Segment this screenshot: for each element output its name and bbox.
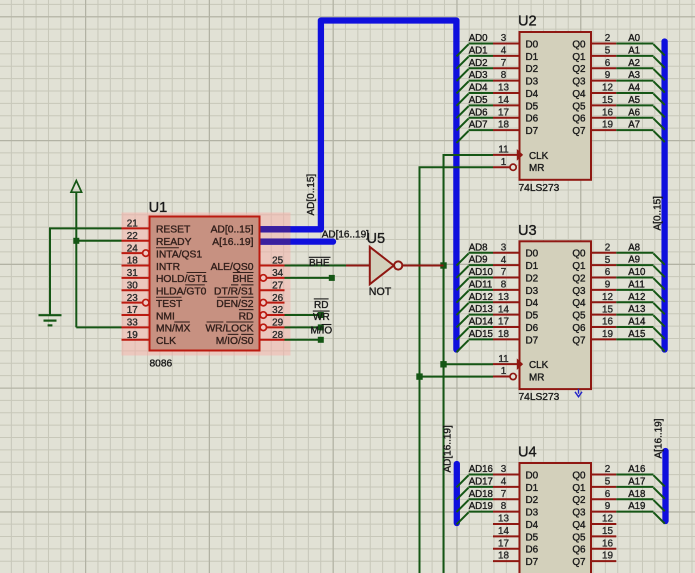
svg-text:AD4: AD4 [469, 83, 488, 94]
U4 pin 17 D6 [493, 548, 520, 550]
svg-text:A12: A12 [628, 292, 645, 303]
U1 pin 31 HOLD/GT1 [122, 277, 150, 279]
svg-text:Q4: Q4 [572, 520, 586, 531]
U1 pin 18 INTR [122, 265, 150, 267]
svg-text:D6: D6 [526, 323, 539, 334]
selection highlight box around U1 [122, 213, 291, 356]
U1 pin 19 CLK [122, 339, 150, 341]
wire U4 Q2 to A18 [616, 498, 653, 500]
svg-text:6: 6 [605, 267, 611, 278]
svg-text:RD: RD [239, 311, 254, 322]
bus entry AD7 [457, 131, 469, 143]
inverter U5 NOT gate [346, 265, 370, 267]
U4 pin 15 Q5 [591, 535, 616, 537]
svg-text:A[16..19]: A[16..19] [212, 237, 253, 248]
U3 pin 16 Q6 [591, 326, 616, 328]
svg-text:D1: D1 [526, 52, 539, 63]
U2 pin 11 CLK [493, 154, 520, 156]
svg-text:14: 14 [498, 304, 509, 315]
bus entry AD11 [457, 291, 469, 303]
svg-text:7: 7 [501, 267, 507, 278]
U3 pin 14 D5 [493, 314, 520, 316]
svg-text:9: 9 [605, 70, 611, 81]
wire U2 Q0 to A0 [616, 43, 653, 45]
svg-text:3: 3 [501, 464, 507, 475]
svg-text:4: 4 [501, 476, 507, 487]
U4 pin 3 D0 [493, 474, 520, 476]
svg-text:1: 1 [501, 157, 507, 168]
U3 pin 6 Q2 [591, 277, 616, 279]
svg-text:D1: D1 [526, 483, 539, 494]
wire U4 Q0 to A16 [616, 474, 653, 476]
IC U1 8086 body [150, 217, 260, 351]
svg-text:D6: D6 [526, 545, 539, 556]
hidden power pin indicator below U3 [575, 389, 582, 397]
U4 pin 12 Q4 [591, 523, 616, 525]
svg-text:19: 19 [602, 329, 613, 340]
svg-text:D2: D2 [526, 273, 539, 284]
bus entry AD3 [457, 81, 469, 93]
svg-text:Q2: Q2 [572, 495, 585, 506]
U1 pin 22 READY [122, 240, 150, 242]
svg-text:A19: A19 [628, 501, 645, 512]
svg-text:CLK: CLK [529, 360, 549, 371]
svg-text:33: 33 [127, 318, 138, 329]
svg-text:27: 27 [272, 280, 283, 291]
svg-text:22: 22 [127, 231, 138, 242]
svg-text:29: 29 [272, 318, 283, 329]
svg-text:D3: D3 [526, 286, 539, 297]
svg-text:7: 7 [501, 58, 507, 69]
svg-text:1: 1 [501, 366, 507, 377]
wire AD2 to U2 D2 [469, 67, 494, 69]
U1 pin 24 INTA/QS1 [122, 252, 143, 254]
svg-text:30: 30 [127, 280, 138, 291]
wire AD5 to U2 D5 [469, 104, 494, 106]
bus A[16..19] vertical right of U4 [662, 451, 668, 521]
svg-text:TEST: TEST [156, 299, 183, 310]
svg-text:A4: A4 [628, 83, 640, 94]
U3 pin 12 Q4 [591, 301, 616, 303]
svg-text:A15: A15 [628, 329, 645, 340]
svg-text:AD18: AD18 [469, 489, 493, 500]
bus AD[16..19] vertical left of U4 [454, 464, 460, 523]
bus A[16..19] stub from U1 [258, 238, 333, 244]
svg-text:BHE: BHE [232, 274, 253, 285]
svg-text:AD12: AD12 [469, 292, 493, 303]
bus entry A10 [654, 278, 665, 289]
svg-text:4: 4 [501, 45, 507, 56]
bus entry A12 [654, 303, 665, 314]
U4 pin 7 D2 [493, 498, 520, 500]
wire U4 Q1 to A17 [616, 486, 653, 488]
svg-text:13: 13 [498, 514, 509, 525]
svg-text:8: 8 [501, 501, 507, 512]
wire RD from U1 pin 32 [285, 314, 321, 316]
U2 pin 9 Q3 [591, 80, 616, 82]
wire U4 Q3 to A19 [616, 511, 653, 513]
svg-text:23: 23 [127, 293, 138, 304]
U1 pin 32 RD [260, 312, 266, 318]
U1 pin 29 WR/LOCK [260, 324, 266, 330]
svg-text:Q3: Q3 [572, 508, 586, 519]
U3 pin 19 Q7 [591, 338, 616, 340]
bus entry AD10 [457, 278, 469, 290]
svg-text:Q6: Q6 [572, 323, 586, 334]
wire U2 Q6 to A6 [616, 117, 653, 119]
svg-text:18: 18 [498, 120, 509, 131]
svg-text:AD8: AD8 [469, 242, 488, 253]
bus entry AD19 [457, 512, 469, 524]
svg-text:8: 8 [501, 280, 507, 291]
svg-text:D5: D5 [526, 101, 539, 112]
svg-text:A5: A5 [628, 95, 640, 106]
svg-text:D4: D4 [526, 89, 539, 100]
wire BHE from U1 pin 34 [285, 277, 332, 279]
svg-text:13: 13 [498, 83, 509, 94]
svg-text:A3: A3 [628, 70, 640, 81]
U1 pin 26 DEN/S2 [260, 299, 266, 305]
svg-text:AD13: AD13 [469, 304, 493, 315]
svg-text:74LS273: 74LS273 [519, 183, 560, 194]
svg-text:16: 16 [602, 538, 613, 549]
svg-text:Q4: Q4 [572, 298, 586, 309]
svg-text:D6: D6 [526, 114, 539, 125]
wire AD3 to U2 D3 [469, 80, 494, 82]
U1 pin 34 BHE [260, 275, 266, 281]
svg-text:Q3: Q3 [572, 286, 586, 297]
svg-text:ALE/QS0: ALE/QS0 [211, 262, 254, 273]
U2 pin 2 Q0 [591, 43, 616, 45]
svg-text:5: 5 [605, 476, 611, 487]
bus entry AD12 [457, 303, 469, 315]
U4 pin 6 Q2 [591, 498, 616, 500]
svg-text:6: 6 [605, 489, 611, 500]
wire AD17 to U4 D1 [469, 486, 494, 488]
svg-text:D0: D0 [526, 39, 539, 50]
wire ALE/QS0 from U1 pin 25 to U5 input [285, 265, 347, 267]
svg-text:A9: A9 [628, 255, 640, 266]
U2 pin 19 Q7 [591, 129, 616, 131]
svg-text:U2: U2 [518, 14, 537, 30]
svg-text:AD1: AD1 [469, 45, 488, 56]
wire U2 Q1 to A1 [616, 55, 653, 57]
wire AD14 to U3 D6 [469, 326, 494, 328]
wire MN/MX to U1 pin 33 [76, 326, 121, 328]
wire AD16 to U4 D0 [469, 474, 494, 476]
svg-text:Q5: Q5 [572, 311, 586, 322]
svg-text:Q7: Q7 [572, 335, 585, 346]
bus entry A4 [654, 94, 665, 105]
bus entry A8 [654, 254, 665, 265]
svg-text:25: 25 [272, 256, 283, 267]
bus entry AD6 [457, 119, 469, 131]
bus entry AD4 [457, 94, 469, 106]
svg-text:Q1: Q1 [572, 261, 586, 272]
svg-text:AD10: AD10 [469, 267, 494, 278]
svg-text:12: 12 [602, 292, 613, 303]
svg-text:NOT: NOT [369, 286, 392, 298]
svg-text:Q1: Q1 [572, 52, 586, 63]
bus entry A11 [654, 291, 665, 302]
svg-text:M/IO/S0: M/IO/S0 [216, 336, 254, 347]
svg-text:A13: A13 [628, 304, 645, 315]
svg-text:14: 14 [498, 95, 509, 106]
svg-text:D7: D7 [526, 335, 539, 346]
svg-text:2: 2 [605, 33, 611, 44]
wire U3 Q4 to A12 [616, 301, 653, 303]
svg-text:12: 12 [602, 83, 613, 94]
svg-text:D2: D2 [526, 495, 539, 506]
U1 pin 33 MN/MX [122, 326, 150, 328]
svg-text:D3: D3 [526, 508, 539, 519]
wire VCC vertical down to MN/MX row [75, 192, 77, 327]
svg-text:INTA/QS1: INTA/QS1 [156, 249, 202, 260]
svg-text:A[0..15]: A[0..15] [652, 196, 663, 231]
bus entry A3 [654, 81, 665, 92]
svg-text:INTR: INTR [156, 262, 180, 273]
svg-text:D4: D4 [526, 298, 539, 309]
svg-text:A0: A0 [628, 33, 640, 44]
wire AD10 to U3 D2 [469, 277, 494, 279]
svg-text:12: 12 [602, 514, 613, 525]
svg-text:8: 8 [501, 70, 507, 81]
svg-text:5: 5 [605, 255, 611, 266]
wire AD1 to U2 D1 [469, 55, 494, 57]
bus entry AD2 [457, 69, 469, 81]
U2 pin 12 Q4 [591, 92, 616, 94]
bus entry A0 [654, 44, 665, 55]
wire AD8 to U3 D0 [469, 252, 494, 254]
svg-text:CLK: CLK [156, 336, 176, 347]
bus entry A15 [654, 340, 665, 351]
svg-text:31: 31 [127, 268, 138, 279]
wire WR from U1 pin 29 [285, 326, 321, 328]
U1 pin 28 M/IO/S0 [260, 339, 285, 341]
svg-text:24: 24 [127, 243, 138, 254]
svg-text:28: 28 [272, 330, 283, 341]
svg-text:MN/MX: MN/MX [156, 324, 190, 335]
bus entry A13 [654, 315, 665, 326]
svg-text:Q6: Q6 [572, 114, 586, 125]
svg-text:D2: D2 [526, 64, 539, 75]
wire AD7 to U2 D7 [469, 129, 494, 131]
svg-text:AD[16..19]: AD[16..19] [322, 229, 369, 240]
U1 pin 17 NMI [122, 314, 150, 316]
wire CLK branch to U3 pin 11 [444, 363, 494, 365]
bus entry AD1 [457, 57, 469, 69]
wire U3 Q6 to A14 [616, 326, 653, 328]
wire M/IO from U1 pin 28 [285, 339, 321, 341]
wire AD13 to U3 D5 [469, 314, 494, 316]
bus entry AD8 [457, 254, 469, 266]
svg-text:11: 11 [498, 144, 509, 155]
bus entry A2 [654, 69, 665, 80]
svg-text:18: 18 [127, 256, 138, 267]
svg-text:26: 26 [272, 293, 283, 304]
svg-text:32: 32 [272, 305, 283, 316]
svg-text:AD[0..15]: AD[0..15] [211, 225, 254, 236]
svg-text:34: 34 [272, 268, 283, 279]
svg-text:AD15: AD15 [469, 329, 493, 340]
U4 pin 13 D4 [493, 523, 520, 525]
U1 pin 23 TEST [122, 302, 143, 304]
U4 pin 19 Q7 [591, 560, 616, 562]
svg-text:Q6: Q6 [572, 545, 586, 556]
wire AD18 to U4 D2 [469, 498, 494, 500]
svg-text:A7: A7 [628, 120, 640, 131]
svg-text:AD5: AD5 [469, 95, 488, 106]
wire AD9 to U3 D1 [469, 264, 494, 266]
svg-text:MR: MR [529, 163, 544, 174]
svg-text:A6: A6 [628, 107, 640, 118]
wire U2 Q7 to A7 [616, 129, 653, 131]
junction CLK net at NOT output [440, 262, 446, 268]
svg-text:D7: D7 [526, 126, 539, 137]
ground symbol [39, 314, 62, 316]
svg-text:Q1: Q1 [572, 483, 586, 494]
wire AD19 to U4 D3 [469, 511, 494, 513]
svg-text:M/IO: M/IO [311, 325, 333, 336]
U3 pin 1 MR [493, 376, 510, 378]
U2 pin 14 D5 [493, 104, 520, 106]
bus entry AD0 [457, 44, 469, 56]
U2 pin 17 D6 [493, 117, 520, 119]
U4 pin 2 Q0 [591, 474, 616, 476]
svg-text:2: 2 [605, 242, 611, 253]
bus entry A9 [654, 266, 665, 277]
svg-text:DEN/S2: DEN/S2 [216, 299, 253, 310]
bus entry A16 [654, 475, 665, 486]
svg-text:AD0: AD0 [469, 33, 488, 44]
svg-text:17: 17 [498, 107, 509, 118]
svg-text:19: 19 [127, 330, 138, 341]
svg-text:A[16..19]: A[16..19] [653, 418, 664, 458]
svg-text:17: 17 [127, 305, 138, 316]
wire MR net vertical (U2/U3/U4 MR) [420, 167, 494, 573]
U3 pin 18 D7 [493, 338, 520, 340]
svg-text:A2: A2 [628, 58, 640, 69]
svg-text:16: 16 [602, 317, 613, 328]
wire U3 Q1 to A9 [616, 264, 653, 266]
U2 pin 8 D3 [493, 80, 520, 82]
terminal M/IO [318, 337, 324, 343]
svg-text:17: 17 [498, 538, 509, 549]
U3 pin 5 Q1 [591, 264, 616, 266]
svg-text:15: 15 [602, 304, 613, 315]
U2 pin 7 D2 [493, 67, 520, 69]
svg-text:11: 11 [498, 354, 509, 365]
bus entry A14 [654, 328, 665, 339]
wire U3 Q5 to A13 [616, 314, 653, 316]
svg-text:AD2: AD2 [469, 58, 488, 69]
U2 pin 15 Q5 [591, 104, 616, 106]
svg-text:D0: D0 [526, 249, 539, 260]
svg-text:HLDA/GT0: HLDA/GT0 [156, 287, 207, 298]
U2 pin 13 D4 [493, 92, 520, 94]
bus entry AD16 [457, 475, 469, 487]
U4 pin 14 D5 [493, 535, 520, 537]
wire CLK net vertical (NOT output to U2/U3/U4 CLK) [444, 155, 494, 573]
svg-text:Q2: Q2 [572, 273, 585, 284]
bus entry AD5 [457, 106, 469, 118]
svg-text:19: 19 [602, 551, 613, 562]
svg-text:Q2: Q2 [572, 64, 585, 75]
svg-text:AD17: AD17 [469, 476, 493, 487]
svg-text:A17: A17 [628, 476, 645, 487]
svg-text:Q5: Q5 [572, 532, 586, 543]
svg-text:AD11: AD11 [469, 279, 493, 290]
svg-text:D3: D3 [526, 77, 539, 88]
svg-text:AD14: AD14 [469, 317, 494, 328]
svg-text:U3: U3 [518, 223, 537, 239]
svg-text:Q4: Q4 [572, 89, 586, 100]
wire U3 Q3 to A11 [616, 289, 653, 291]
wire U2 Q3 to A3 [616, 80, 653, 82]
bus entry A1 [654, 57, 665, 68]
bus entry A18 [654, 500, 665, 511]
svg-text:15: 15 [602, 95, 613, 106]
svg-text:74LS273: 74LS273 [519, 392, 560, 403]
svg-text:7: 7 [501, 489, 507, 500]
U2 pin 6 Q2 [591, 67, 616, 69]
U1 right pin-name overlines [233, 272, 254, 274]
svg-text:AD16: AD16 [469, 464, 493, 475]
bus entry A6 [654, 119, 665, 130]
IC U2 74LS273 body [520, 32, 592, 180]
svg-text:A16: A16 [628, 464, 645, 475]
svg-text:AD6: AD6 [469, 107, 488, 118]
bus entry AD15 [457, 340, 469, 352]
terminal WR [318, 324, 324, 330]
svg-text:Q0: Q0 [572, 39, 586, 50]
svg-text:9: 9 [605, 280, 611, 291]
svg-text:18: 18 [498, 551, 509, 562]
svg-text:READY: READY [156, 237, 192, 248]
U1 pin 30 HLDA/GT0 [122, 289, 150, 291]
svg-text:D0: D0 [526, 470, 539, 481]
svg-text:19: 19 [602, 120, 613, 131]
svg-text:RD: RD [314, 300, 328, 311]
U4 pin 5 Q1 [591, 486, 616, 488]
power symbol VCC arrow [71, 181, 82, 193]
bus entry A17 [654, 488, 665, 499]
U3 pin 15 Q5 [591, 314, 616, 316]
U3 pin 3 D0 [493, 252, 520, 254]
U3 pin 7 D2 [493, 277, 520, 279]
U1 pin 27 DT/R/S1 [260, 289, 285, 291]
svg-text:D1: D1 [526, 261, 539, 272]
bus entry AD13 [457, 315, 469, 327]
bus entry AD9 [457, 266, 469, 278]
purple tint of buses inside selection highlight [255, 226, 291, 232]
wire U5 output to CLK net (drawn as pin colour) [403, 265, 444, 267]
wire AD12 to U3 D4 [469, 301, 494, 303]
wire U3 Q0 to A8 [616, 252, 653, 254]
svg-text:A8: A8 [628, 242, 640, 253]
svg-text:A11: A11 [628, 279, 645, 290]
svg-text:8086: 8086 [150, 358, 173, 369]
U2 pin 4 D1 [493, 55, 520, 57]
svg-text:U4: U4 [518, 445, 537, 461]
IC U4 74LS273 body [520, 463, 592, 573]
U1 pin 21 RESET [122, 227, 150, 229]
svg-text:NMI: NMI [156, 311, 175, 322]
wire AD11 to U3 D3 [469, 289, 494, 291]
svg-text:D7: D7 [526, 557, 539, 568]
terminal BHE [329, 275, 335, 281]
U4 pin 8 D3 [493, 511, 520, 513]
